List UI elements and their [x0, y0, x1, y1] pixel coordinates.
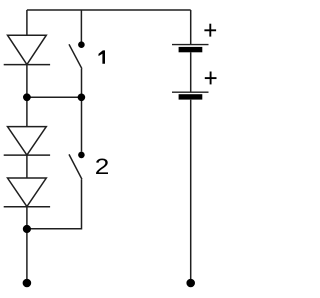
svg-text:2: 2: [95, 155, 110, 179]
